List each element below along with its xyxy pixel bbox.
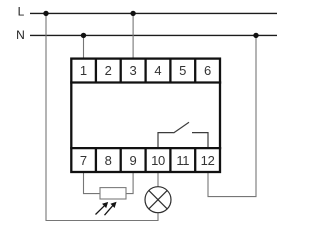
svg-text:1: 1	[80, 63, 87, 78]
svg-text:12: 12	[201, 153, 215, 168]
svg-text:11: 11	[176, 153, 189, 168]
svg-text:2: 2	[105, 63, 112, 78]
svg-text:N: N	[16, 28, 25, 42]
svg-text:7: 7	[80, 153, 87, 168]
svg-text:3: 3	[129, 63, 136, 78]
svg-text:10: 10	[151, 153, 165, 168]
svg-text:8: 8	[105, 153, 112, 168]
svg-text:9: 9	[129, 153, 136, 168]
svg-text:L: L	[18, 5, 25, 19]
svg-text:6: 6	[204, 63, 211, 78]
svg-text:4: 4	[154, 63, 161, 78]
svg-text:5: 5	[179, 63, 186, 78]
